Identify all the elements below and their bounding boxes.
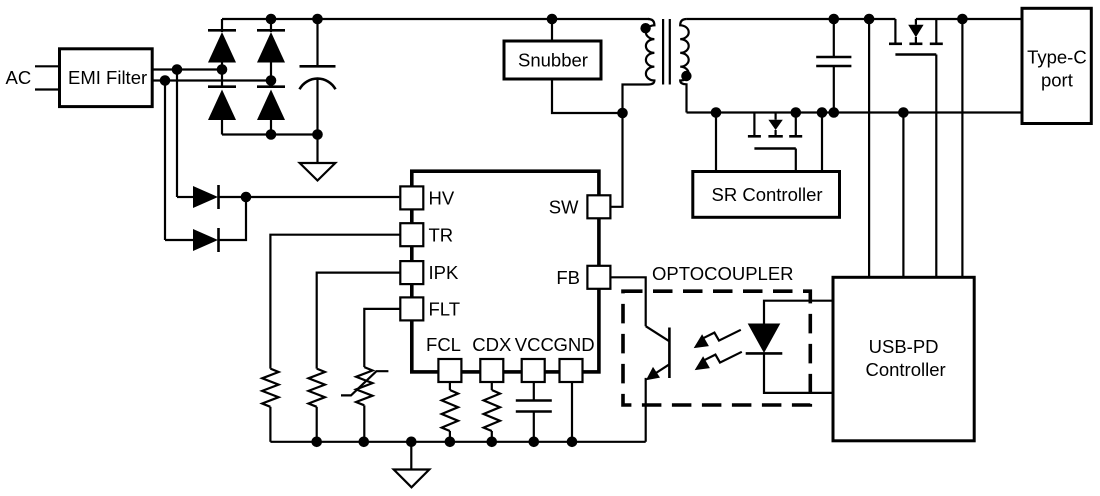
wire RV1 to ground rail [363,405,365,441]
wire R1 to ground rail [269,407,271,442]
Snubber block [504,41,601,79]
svg-text:Controller: Controller [865,359,945,380]
node dot bridge right mid [266,75,277,86]
wire opto emitter to ground rail [645,378,647,442]
USB-PD Controller block [833,277,974,441]
pin CDX [472,334,511,382]
pin HV [400,186,455,209]
svg-text:Snubber: Snubber [518,50,588,71]
wire R3 to ground rail [449,431,451,442]
svg-text:TR: TR [429,224,454,245]
wire bridge left column [221,19,223,135]
svg-text:FB: FB [556,267,580,288]
wire bridge right column [270,19,272,135]
svg-text:port: port [1041,70,1073,91]
light arrow 1 [694,330,741,348]
node dot top rail at C3 [829,14,840,25]
SR Controller block [693,172,840,218]
pin SW [549,195,611,218]
wire SW node down to SW pin [610,113,622,207]
optocoupler dashed box [623,291,810,405]
node junction dot line1 [172,64,183,75]
resistor RV1 (adjustable) [341,367,388,405]
capacitor C2 (VCC) [516,382,552,442]
node dot bottom rail at C3 [829,107,840,118]
wire USB-PD sense 3 (top rail right) [961,19,963,277]
node dot top rail at snubber [547,14,558,25]
diode D5 (startup, to HV) [177,185,399,209]
transistor Q3 (opto phototransistor) [646,326,670,380]
wire from line1 down to startup diode D5 [176,70,178,198]
svg-text:CDX: CDX [472,334,511,355]
node dot rail at C2 [529,437,540,448]
diode D2 (bridge top-right) [257,30,285,62]
svg-text:VCC: VCC [515,334,554,355]
LED D7 (opto emitter diode) [746,301,833,393]
svg-text:AC: AC [6,67,32,88]
node dot rail at GND wire [567,437,578,448]
capacitor C1 bulk (polarized) [300,19,336,163]
transformer T1 secondary phase dot [681,71,691,81]
svg-text:GND: GND [553,334,594,355]
pin IPK [400,261,459,284]
light arrow 2 [695,352,742,370]
wire FCL pin to R3 [449,382,451,390]
node dot rail at R2 [311,437,322,448]
wire AC input line 2 [35,88,60,90]
node dot bridge left mid [217,64,228,75]
wire Q1 gate to USB-PD [935,55,937,278]
wire SR sense down to SR Controller [715,113,717,172]
node dot rail at ground stub [406,437,417,448]
svg-text:FCL: FCL [426,334,461,355]
wire USB-PD sense 1 (top rail) [868,19,870,277]
svg-text:FLT: FLT [429,299,461,320]
resistor R4 [484,390,500,431]
wire top rail (primary side) [222,18,649,20]
node dot top rail at USB-PD wire [864,14,875,25]
transformer T1 primary winding [623,19,655,113]
node dot HV wire junction [241,192,252,203]
Type-C port block [1022,8,1091,123]
node dot rail at SR right wire [817,107,828,118]
wire ground stub [410,442,412,470]
pin TR [400,223,453,246]
resistor R3 [442,390,458,431]
pin GND [553,334,594,382]
wire TR pin to R1 [270,235,400,369]
wire Q1 diode-top horizontal to Type-C [916,18,1022,20]
wire EMI output line 2 [152,79,271,81]
pin FCL [426,334,461,382]
resistor R1 [262,369,278,407]
resistor R2 [309,369,325,407]
transistor Q2 (SR MOSFET) [748,113,802,149]
node dot rail at RV1 [359,437,370,448]
wire FB pin to opto collector [610,277,645,326]
wire bridge bottom rail [222,133,318,135]
diode D1 (bridge top-left) [208,30,236,62]
svg-text:SR Controller: SR Controller [712,184,823,205]
EMI Filter block [60,49,153,107]
wire secondary bottom rail [687,111,1023,113]
diode D4 (bridge bottom-right) [257,87,285,120]
wire EMI output line 1 [152,68,222,70]
svg-text:USB-PD: USB-PD [869,336,939,357]
pin FLT [400,297,460,320]
node dot top rail at C1 [312,14,323,25]
wire CDX pin to R4 [491,382,493,390]
svg-text:EMI Filter: EMI Filter [68,67,147,88]
node dot bottom rail at bridge right column [266,129,277,140]
node dot rail at SR sense [711,107,722,118]
wire snubber to top rail [551,19,553,41]
diode D3 (bridge bottom-left) [208,87,236,120]
converter IC U1 body [412,171,599,372]
transistor Q1 (high-side MOSFET) [889,19,943,55]
ground (bridge) [300,163,336,181]
wire AC input line 1 [35,65,60,67]
svg-text:SW: SW [549,196,579,217]
wire Q2 gate to SR Controller [795,149,797,172]
transformer T1 secondary winding [680,19,689,113]
ground (bottom) [394,470,430,488]
transformer T1 core [663,19,670,85]
wire from line2 down to startup diode D6 [164,81,166,241]
pin VCC [515,334,554,382]
wire R4 to ground rail [491,431,493,442]
wire USB-PD sense 2 (bottom rail) [902,113,904,278]
wire GND pin to ground rail [571,382,573,442]
transformer T1 primary phase dot [640,23,650,33]
node dot SW junction [617,108,628,119]
wire FLT pin to RV1 [364,309,400,367]
node dot rail at R3 [445,437,456,448]
node dot top rail right of Q1 [957,14,968,25]
diode D6 (startup, lower) [165,197,246,252]
wire rail to SR Controller (right) [821,113,823,172]
svg-text:OPTOCOUPLER: OPTOCOUPLER [652,263,794,284]
wire R2 to ground rail [316,407,318,442]
wire IPK pin to R2 [317,273,401,369]
wire ground rail (bottom) [270,441,645,443]
wire snubber bottom to SW node [552,79,623,113]
capacitor C3 (output) [816,19,851,113]
wire secondary top rail [687,18,896,20]
node junction dot line2 [160,75,171,86]
node dot top rail at bridge right column [266,14,277,25]
node dot bottom rail at USB-PD wire [898,107,909,118]
node dot bottom rail at C1 [312,129,323,140]
node dot rail at Q2 drain [791,107,802,118]
svg-text:HV: HV [429,188,455,209]
svg-text:IPK: IPK [429,262,459,283]
svg-text:Type-C: Type-C [1027,47,1087,68]
node dot rail at R4 [487,437,498,448]
pin FB [556,266,610,289]
